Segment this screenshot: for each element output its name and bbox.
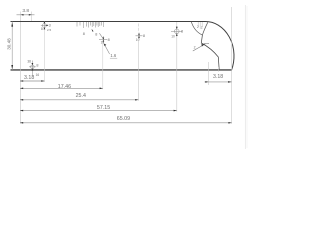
top dimension 3.8 : extension lines [20,12,22,22]
second faint vertical reference line [246,6,248,148]
svg-text:2: 2 [194,46,196,50]
svg-text:10: 10 [136,38,140,42]
dim row 4 arrows [20,110,23,112]
hole H4 (small position target) [136,33,143,40]
top dimension 3.8 : dimension line [17,14,35,16]
hole H1 crosshair dark tip [46,24,48,26]
leader from hole H3 to note [104,44,109,54]
svg-text:8: 8 [181,29,183,33]
dim row 5 (65.09) : line [20,122,232,124]
svg-text:57.15: 57.15 [97,105,110,111]
dim row 4 (57.15) : line [20,110,177,112]
right dimension 3.18 : dimension line [205,81,232,83]
svg-text:8: 8 [83,32,85,36]
svg-text:8: 8 [95,32,97,36]
comb tick marks below top edge [77,22,103,28]
svg-text:1.6: 1.6 [110,53,116,58]
svg-text:8: 8 [36,64,38,68]
dim row 3 arrows [20,99,23,101]
svg-text:8: 8 [143,34,145,38]
extension line from hole H5 up to top edge [176,22,178,26]
right dimension 3.18 : arrows [205,81,208,83]
inner hook profile: notch left wall [191,22,202,35]
svg-text:25.4: 25.4 [76,93,86,99]
extension line from hole H3 down to dim row 2 [102,43,104,89]
svg-text:3: 3 [49,23,51,27]
extension line from hole H4 down to dim row 3 [137,40,139,101]
svg-text:38: 38 [27,59,31,63]
svg-text:2: 2 [197,25,199,29]
dim row 1 arrows [20,80,23,82]
extension line for right dim at x 208 [207,62,209,85]
svg-text:30.48: 30.48 [6,38,11,50]
svg-text:17.46: 17.46 [58,84,71,90]
svg-text:3.18: 3.18 [213,74,223,80]
dim row 1 (3.18) : line [20,80,44,82]
inner hook profile: stem and inner arc [201,35,219,70]
small ticks near hook slot [198,22,202,29]
svg-text:8: 8 [41,27,43,31]
dim row 2 arrows [20,88,23,90]
svg-text:65.09: 65.09 [117,116,130,122]
svg-text:3.18: 3.18 [24,75,34,81]
leader to hole H3 [99,33,103,38]
extension line at part right end down to dim row 5 [231,7,233,124]
inner hook profile: notch right wall [202,22,207,35]
left dimension 30.48 : dimension line [11,22,13,71]
part outline: outer arc at right end [206,22,235,71]
svg-text:16: 16 [36,73,40,77]
part outline: top edge [11,21,206,23]
extension line from hole H4 up to top edge [137,24,139,33]
svg-text:10: 10 [171,34,175,38]
note underline shelf [110,57,117,59]
radius leader arrowhead [201,43,205,46]
extension line at left datum x=20.3 [19,22,21,124]
faint vertical reference line right [244,5,246,149]
extension line from hole H5 down to dim row 4 [176,37,178,112]
comb arrow mark [92,29,94,32]
dim row 2 (17.46) : line [20,87,103,89]
leader arrowhead at hole H3 [104,43,107,46]
dim row 5 arrows [20,122,23,124]
extension line from hole H1 down to dim row 1 [43,30,45,83]
svg-text:2: 2 [201,26,203,30]
hole H3 (small position target) [99,36,107,43]
hole H2 (position target on bottom edge) [29,61,36,77]
part outline: bottom edge [11,69,232,71]
hole H5 (position target with circle) [171,26,182,37]
svg-text:8: 8 [108,38,110,42]
dim row 3 (25.4) : line [20,99,138,101]
top dimension 3.8 : arrows [21,14,24,16]
left dimension 30.48 : arrows [11,22,13,26]
svg-text:3.8: 3.8 [22,8,29,14]
svg-text:10: 10 [101,41,105,45]
radius leader line for inner arc [193,43,209,51]
extension tick below bottom edge at inner arc end [218,67,220,72]
hole H1 (position target near top edge) [41,21,48,29]
svg-text:2.5: 2.5 [47,28,52,32]
